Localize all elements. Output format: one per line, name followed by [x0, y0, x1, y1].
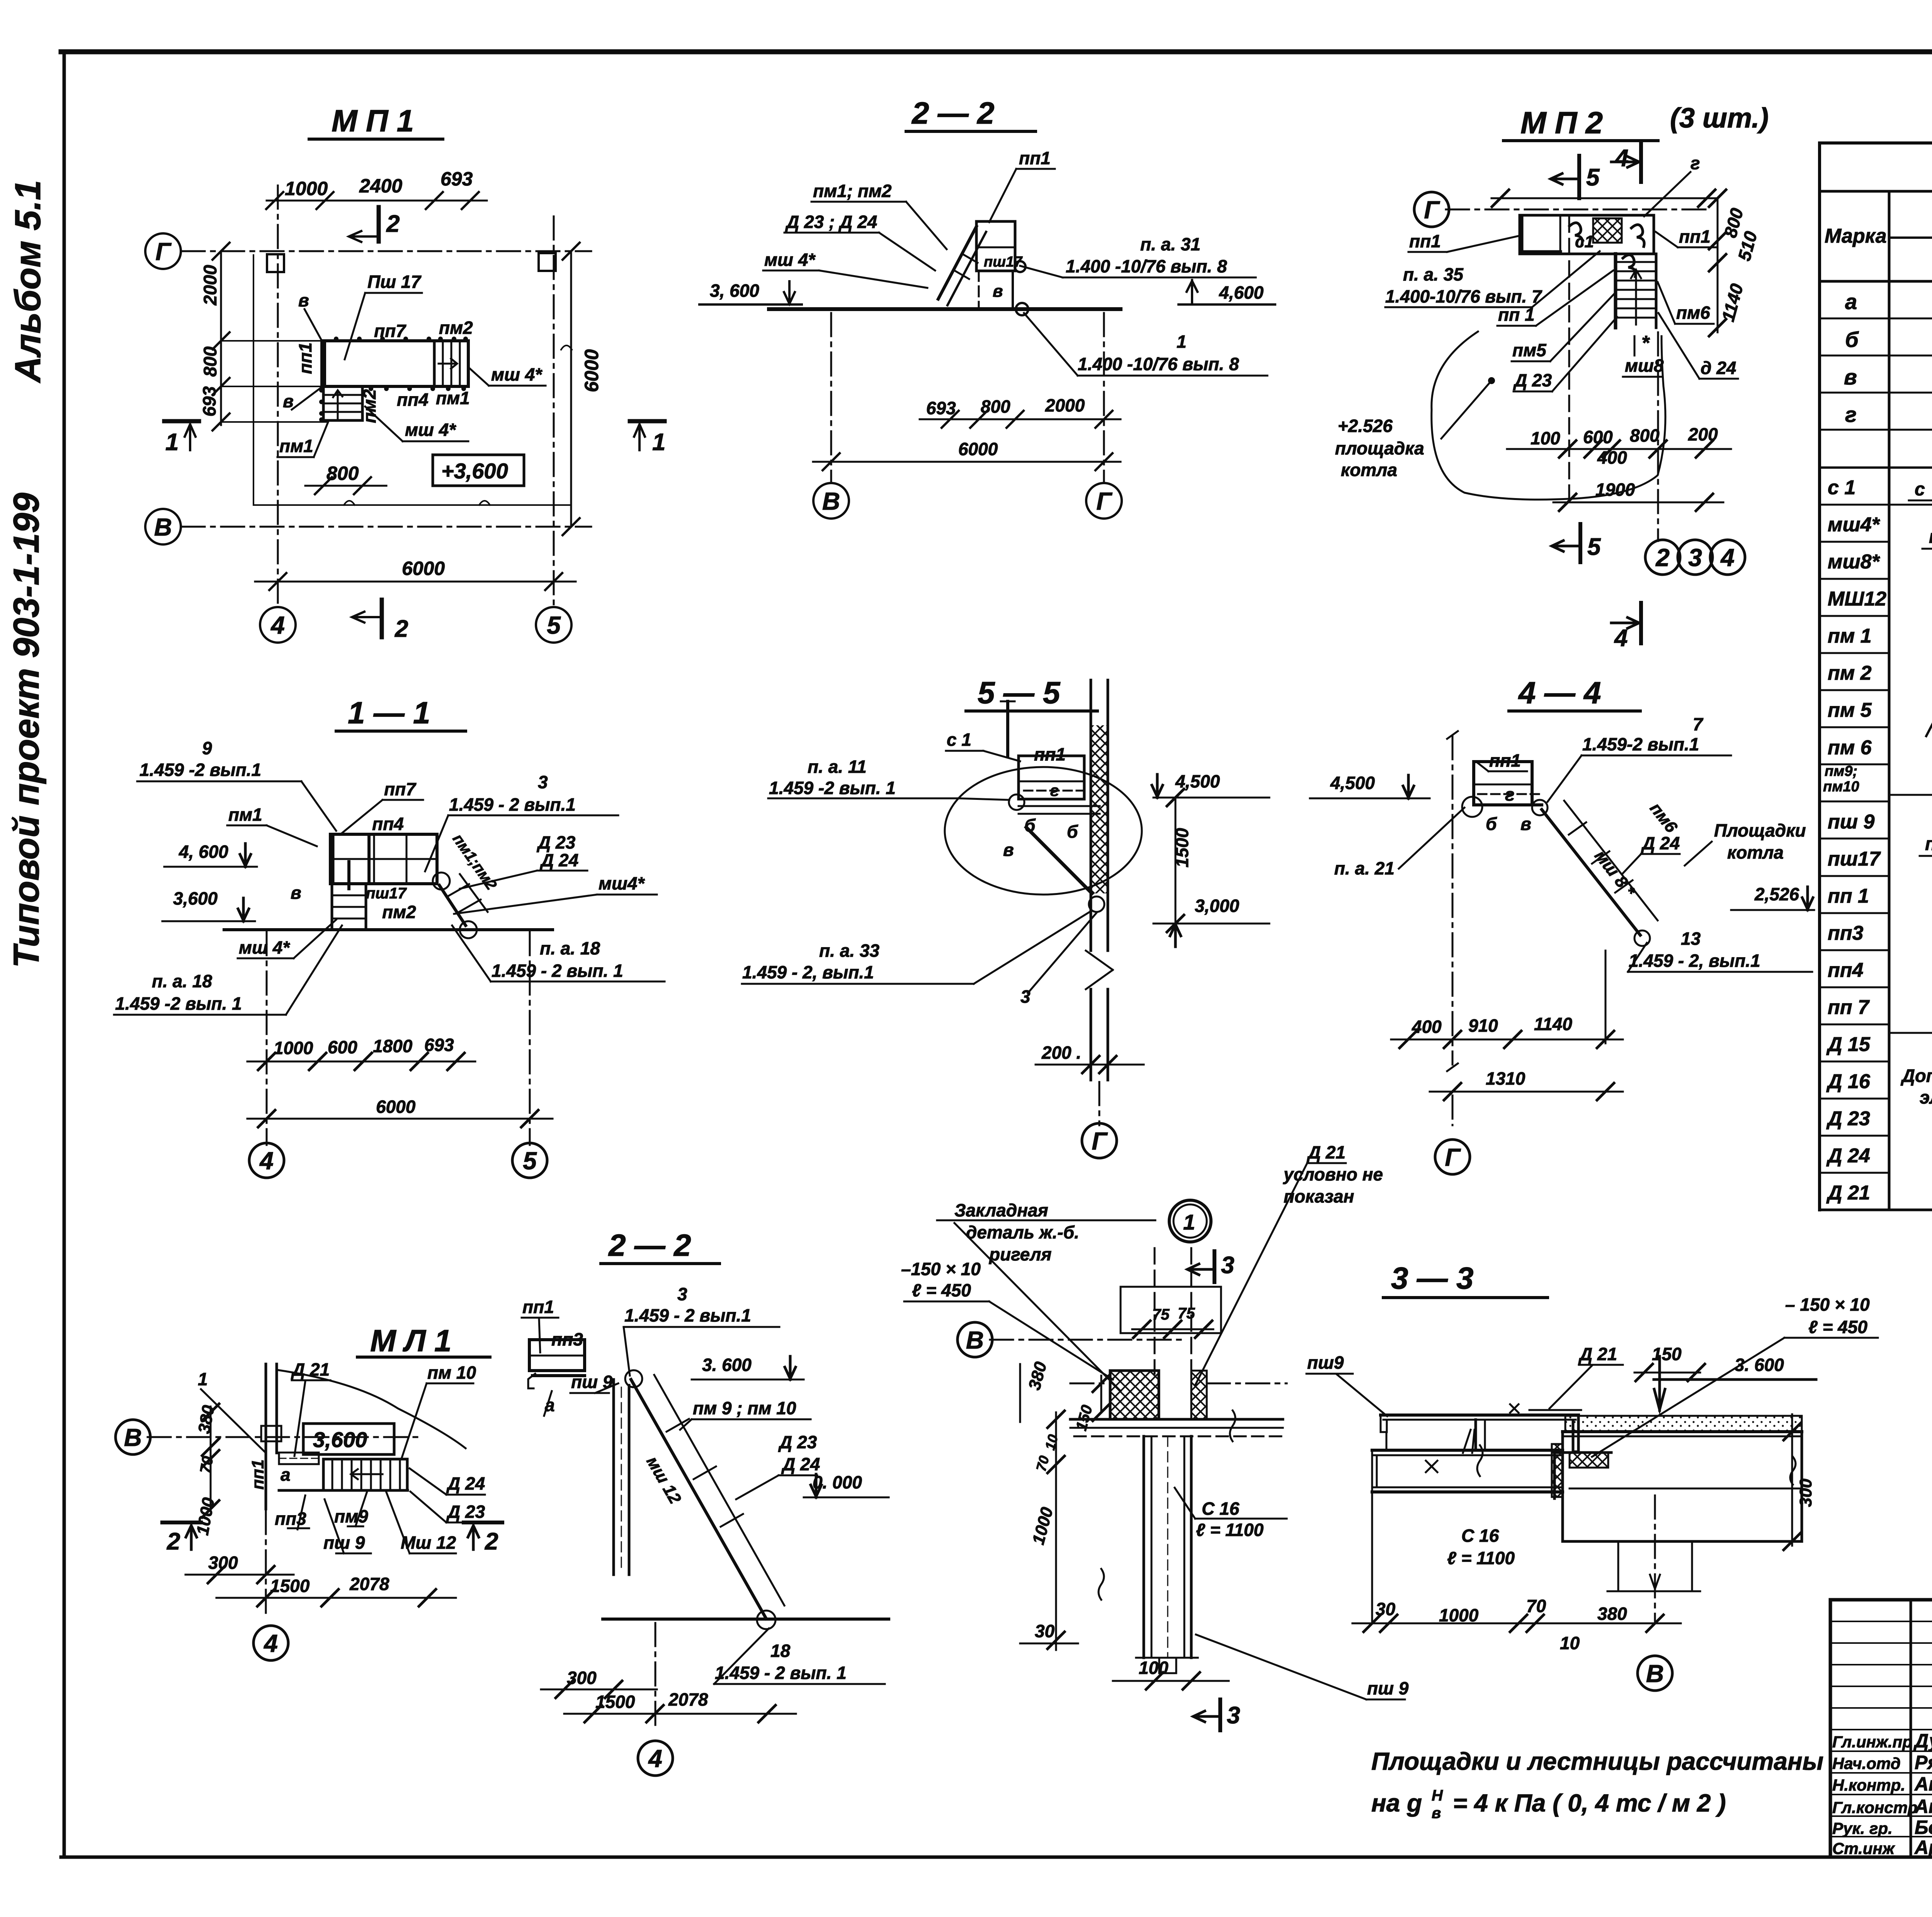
svg-text:600: 600 [328, 1037, 357, 1057]
svg-text:ℓ = 1100: ℓ = 1100 [1196, 1520, 1264, 1540]
svg-text:5: 5 [1587, 534, 1601, 560]
svg-text:пш17: пш17 [1828, 848, 1881, 870]
svg-text:4: 4 [263, 1630, 278, 1657]
svg-text:Д 21: Д 21 [1306, 1142, 1345, 1162]
svg-text:пп1: пп1 [1034, 744, 1066, 764]
svg-text:4,500: 4,500 [1175, 771, 1220, 791]
svg-text:Артамонова: Артамонова [1914, 1837, 1932, 1858]
svg-text:Н: Н [1432, 1787, 1443, 1804]
svg-text:100: 100 [1139, 1658, 1168, 1678]
svg-text:пп 7: пп 7 [1828, 996, 1870, 1019]
svg-text:с 1: с 1 [947, 730, 971, 750]
svg-text:Площадки и лестницы рассчитаны: Площадки и лестницы рассчитаны [1371, 1747, 1823, 1775]
svg-text:1.459 - 2, вып.1: 1.459 - 2, вып.1 [742, 962, 874, 982]
svg-text:пп1: пп1 [1409, 231, 1441, 251]
svg-text:в: в [1844, 365, 1857, 389]
svg-text:1 — 1: 1 — 1 [348, 696, 430, 730]
svg-text:б: б [1067, 822, 1078, 842]
svg-text:Н.контр.: Н.контр. [1832, 1776, 1905, 1794]
svg-text:пп 1: пп 1 [1828, 885, 1869, 907]
svg-text:пм1;пм2: пм1;пм2 [449, 831, 500, 893]
svg-text:пм6: пм6 [1646, 799, 1681, 837]
svg-text:Г: Г [1445, 1143, 1461, 1171]
svg-text:= 4 к Па ( 0, 4 тс / м 2 ): = 4 к Па ( 0, 4 тс / м 2 ) [1453, 1789, 1726, 1817]
svg-text:800: 800 [200, 347, 220, 377]
svg-text:Д 24: Д 24 [539, 850, 578, 870]
svg-text:Пш 17: Пш 17 [367, 272, 422, 292]
svg-text:пп4: пп4 [372, 814, 404, 834]
svg-text:1.459 - 2 вып. 1: 1.459 - 2 вып. 1 [492, 961, 623, 981]
svg-text:693: 693 [199, 386, 219, 417]
svg-text:1140: 1140 [1534, 1014, 1572, 1034]
svg-text:2000: 2000 [200, 265, 220, 306]
svg-text:Д 23: Д 23 [446, 1502, 485, 1522]
svg-text:Бобрук: Бобрук [1915, 1817, 1932, 1838]
svg-text:1.459 -2 вып. 1: 1.459 -2 вып. 1 [769, 778, 896, 798]
svg-text:пм6: пм6 [1676, 303, 1710, 323]
svg-text:пп7: пп7 [374, 321, 406, 341]
svg-text:400: 400 [1412, 1017, 1442, 1037]
figure МП1 plan [145, 104, 665, 643]
svg-text:Закладная: Закладная [954, 1200, 1048, 1220]
svg-text:5: 5 [523, 1147, 537, 1175]
svg-text:г: г [1845, 402, 1857, 427]
svg-text:2078: 2078 [349, 1574, 389, 1594]
svg-text:пм1: пм1 [279, 436, 313, 456]
svg-text:1000: 1000 [274, 1038, 313, 1058]
svg-text:б: б [1845, 327, 1859, 352]
svg-text:пм2: пм2 [382, 902, 416, 922]
svg-text:п. а. 11: п. а. 11 [808, 757, 867, 777]
svg-text:1000: 1000 [193, 1496, 218, 1536]
svg-text:Рябуха: Рябуха [1915, 1752, 1932, 1773]
svg-text:пм5: пм5 [1512, 340, 1547, 360]
sketch c1 [1909, 473, 1932, 974]
svg-text:пп1: пп1 [1679, 226, 1711, 247]
svg-text:(3 шт.): (3 шт.) [1670, 103, 1769, 134]
svg-text:Площадки: Площадки [1714, 820, 1806, 840]
svg-text:мш4*: мш4* [1828, 514, 1881, 536]
figure 1-1 section [114, 696, 665, 1178]
svg-text:пш9: пш9 [1307, 1352, 1344, 1373]
svg-text:п. а. 18: п. а. 18 [152, 971, 212, 991]
svg-text:пм9: пм9 [334, 1506, 368, 1526]
svg-text:1.400 -10/76 вып. 8: 1.400 -10/76 вып. 8 [1066, 256, 1227, 276]
svg-text:1.459 -2 вып. 1: 1.459 -2 вып. 1 [115, 993, 242, 1014]
svg-text:Д 21: Д 21 [1826, 1182, 1870, 1204]
svg-text:5 — 5: 5 — 5 [978, 675, 1061, 710]
svg-text:2,526: 2,526 [1754, 884, 1799, 904]
svg-text:пш17: пш17 [984, 254, 1023, 270]
svg-text:3,600: 3,600 [173, 888, 218, 908]
svg-text:мш8*: мш8* [1828, 551, 1881, 573]
svg-text:Типовой проект 903-1-199: Типовой проект 903-1-199 [6, 493, 46, 968]
svg-text:п. а. 31: п. а. 31 [1140, 234, 1201, 254]
svg-text:пш 9: пш 9 [323, 1533, 365, 1553]
svg-text:пш 9: пш 9 [1367, 1678, 1409, 1698]
svg-text:6000: 6000 [581, 349, 602, 392]
svg-text:4: 4 [270, 611, 285, 639]
svg-text:п. а. 35: п. а. 35 [1403, 264, 1464, 284]
svg-text:Д 24: Д 24 [781, 1454, 820, 1474]
svg-text:300: 300 [567, 1668, 597, 1688]
svg-text:МШ12: МШ12 [1828, 588, 1886, 610]
svg-text:Д 23: Д 23 [1826, 1107, 1870, 1130]
svg-text:с: с [1915, 479, 1925, 500]
svg-text:в: в [993, 282, 1003, 301]
svg-text:1.459-2 вып.1: 1.459-2 вып.1 [1582, 734, 1699, 754]
svg-text:10: 10 [1042, 1433, 1061, 1452]
svg-text:пм10: пм10 [1823, 779, 1859, 795]
svg-text:г: г [1050, 781, 1059, 799]
svg-text:на g: на g [1371, 1789, 1422, 1817]
svg-text:пп: пп [1925, 834, 1932, 854]
svg-text:п. а. 33: п. а. 33 [819, 941, 879, 961]
svg-text:1140: 1140 [1718, 281, 1747, 323]
svg-text:В: В [966, 1326, 984, 1354]
svg-text:пп1: пп1 [1019, 148, 1051, 168]
svg-text:5: 5 [1586, 164, 1600, 191]
svg-text:6000: 6000 [402, 558, 445, 579]
svg-text:3: 3 [1688, 544, 1702, 572]
svg-text:Г: Г [155, 238, 172, 265]
svg-text:С 16: С 16 [1202, 1499, 1240, 1519]
figure 2-2 bottom section [522, 1228, 889, 1776]
frame border top [61, 49, 1932, 54]
svg-text:пм 5: пм 5 [1828, 699, 1872, 721]
svg-text:1900: 1900 [1595, 480, 1635, 500]
svg-text:Д 23 ; Д 24: Д 23 ; Д 24 [785, 212, 877, 232]
svg-text:1.459 -2 вып.1: 1.459 -2 вып.1 [139, 760, 261, 780]
svg-text:Ст.инж: Ст.инж [1832, 1839, 1895, 1857]
svg-text:380: 380 [1025, 1359, 1050, 1392]
svg-text:4: 4 [1614, 145, 1628, 172]
svg-text:Д 23: Д 23 [1513, 370, 1552, 390]
svg-text:в: в [283, 391, 294, 411]
svg-text:693: 693 [926, 398, 956, 418]
svg-text:пп7: пп7 [384, 779, 417, 799]
frame border bottom [61, 1856, 1932, 1859]
svg-text:б: б [1486, 814, 1497, 834]
svg-text:200 .: 200 . [1041, 1043, 1081, 1063]
svg-text:10: 10 [1560, 1633, 1580, 1653]
svg-text:а: а [281, 1465, 291, 1485]
svg-text:д 24: д 24 [1701, 358, 1736, 378]
svg-text:Д 16: Д 16 [1826, 1070, 1871, 1093]
svg-text:2 — 2: 2 — 2 [911, 96, 994, 130]
svg-text:6000: 6000 [376, 1097, 416, 1117]
svg-text:Д 15: Д 15 [1826, 1033, 1871, 1056]
svg-text:Андриевская: Андриевская [1914, 1773, 1932, 1795]
svg-text:а: а [1845, 289, 1857, 314]
svg-text:–150 × 10: –150 × 10 [901, 1259, 981, 1279]
svg-text:18: 18 [770, 1641, 791, 1661]
svg-text:Марка: Марка [1825, 225, 1887, 247]
svg-text:в: в [291, 883, 301, 903]
svg-text:Д 23: Д 23 [778, 1432, 817, 1452]
svg-text:13: 13 [1681, 929, 1701, 949]
svg-text:Гл.инж.пр: Гл.инж.пр [1832, 1733, 1912, 1751]
svg-text:1000: 1000 [285, 178, 328, 199]
figure 5-5 section [742, 675, 1269, 1158]
svg-text:Д 23: Д 23 [536, 832, 576, 852]
svg-text:800: 800 [327, 463, 359, 484]
svg-text:2000: 2000 [1045, 395, 1085, 415]
svg-text:800: 800 [1630, 425, 1660, 446]
svg-text:деталь ж.-б.: деталь ж.-б. [966, 1222, 1079, 1242]
svg-text:9: 9 [202, 738, 212, 758]
svg-text:пп1: пп1 [295, 342, 315, 374]
svg-text:2078: 2078 [668, 1689, 708, 1709]
svg-text:1500: 1500 [595, 1692, 635, 1712]
svg-text:1: 1 [652, 429, 665, 456]
svg-text:М П 1: М П 1 [332, 104, 414, 138]
svg-text:4, 600: 4, 600 [179, 842, 228, 862]
figure 3-3 section [1306, 1261, 1878, 1691]
svg-text:100: 100 [1531, 428, 1560, 448]
svg-text:в: в [298, 290, 309, 310]
svg-text:б: б [1024, 815, 1036, 835]
svg-text:4 — 4: 4 — 4 [1518, 675, 1601, 710]
svg-text:30: 30 [1035, 1621, 1055, 1641]
svg-text:3: 3 [677, 1284, 687, 1304]
svg-text:пм2: пм2 [439, 318, 473, 338]
svg-text:пм: пм [1929, 527, 1932, 547]
svg-text:4,600: 4,600 [1219, 282, 1264, 303]
svg-text:М Л 1: М Л 1 [370, 1323, 452, 1358]
svg-text:Д 24: Д 24 [446, 1473, 485, 1493]
svg-text:Нач.отд: Нач.отд [1832, 1754, 1901, 1772]
svg-text:1.459 - 2 вып. 1: 1.459 - 2 вып. 1 [715, 1663, 847, 1683]
svg-text:7: 7 [1693, 714, 1704, 734]
svg-text:мш 4*: мш 4* [764, 250, 816, 270]
svg-text:910: 910 [1468, 1015, 1498, 1036]
table Ведомость элементов [1820, 143, 1932, 1210]
svg-text:Альбом 5.1: Альбом 5.1 [7, 180, 48, 383]
svg-text:3,600: 3,600 [313, 1427, 367, 1452]
svg-text:4: 4 [648, 1745, 662, 1772]
svg-text:3: 3 [538, 772, 548, 792]
figure Узел 1 detail [901, 1142, 1409, 1730]
svg-text:2: 2 [395, 616, 408, 642]
svg-text:1.459 - 2 вып.1: 1.459 - 2 вып.1 [449, 794, 576, 815]
svg-text:1: 1 [1177, 332, 1187, 352]
svg-text:площадка: площадка [1335, 438, 1424, 458]
svg-text:2: 2 [485, 1528, 498, 1555]
svg-text:котла: котла [1341, 460, 1397, 480]
svg-text:+3,600: +3,600 [441, 459, 508, 483]
svg-text:Г: Г [1424, 196, 1440, 224]
svg-text:пм9;: пм9; [1825, 763, 1857, 779]
svg-text:70: 70 [197, 1455, 217, 1475]
svg-text:п. а. 18: п. а. 18 [540, 938, 600, 958]
svg-text:пш 9: пш 9 [1828, 811, 1874, 833]
svg-text:Г: Г [1096, 487, 1112, 515]
svg-text:3: 3 [1227, 1702, 1240, 1729]
svg-text:3: 3 [1221, 1252, 1234, 1279]
title block bottom right [1830, 1600, 1932, 1857]
svg-text:4: 4 [259, 1147, 274, 1175]
svg-text:Рук. гр.: Рук. гр. [1832, 1819, 1893, 1837]
svg-text:пм1: пм1 [228, 805, 262, 825]
svg-text:5: 5 [547, 611, 561, 639]
svg-text:75: 75 [1178, 1305, 1195, 1322]
svg-text:пм1; пм2: пм1; пм2 [813, 181, 892, 201]
svg-text:мш4*: мш4* [599, 873, 645, 893]
svg-text:С 16: С 16 [1461, 1526, 1499, 1546]
svg-text:693: 693 [424, 1035, 454, 1055]
svg-text:пп1: пп1 [522, 1297, 554, 1317]
svg-text:150: 150 [1652, 1344, 1682, 1364]
figure МП2 plan [1335, 103, 1769, 651]
svg-text:в: в [1432, 1805, 1441, 1822]
svg-text:В: В [1646, 1660, 1664, 1687]
svg-text:Д 24: Д 24 [1826, 1145, 1870, 1167]
svg-text:4: 4 [1720, 544, 1735, 572]
svg-text:2400: 2400 [359, 175, 402, 197]
figure 2-2 section top [699, 96, 1275, 519]
svg-text:пм 10: пм 10 [427, 1362, 476, 1383]
svg-text:3, 600: 3, 600 [710, 281, 759, 301]
svg-text:пм 9 ; пм 10: пм 9 ; пм 10 [693, 1398, 796, 1418]
svg-text:Думан: Думан [1913, 1730, 1932, 1752]
svg-text:мш 4*: мш 4* [491, 364, 543, 384]
svg-text:В: В [124, 1424, 142, 1451]
svg-text:2: 2 [1655, 544, 1670, 572]
svg-text:пп4: пп4 [397, 390, 429, 410]
svg-text:котла: котла [1727, 842, 1784, 862]
svg-text:2: 2 [167, 1528, 180, 1555]
svg-text:1.459 - 2, вып.1: 1.459 - 2, вып.1 [1629, 951, 1760, 971]
svg-text:2: 2 [386, 211, 400, 237]
svg-text:1: 1 [1183, 1210, 1195, 1234]
svg-text:+2.526: +2.526 [1338, 416, 1393, 436]
svg-text:– 150 × 10: – 150 × 10 [1785, 1294, 1870, 1315]
svg-text:70: 70 [1526, 1596, 1546, 1616]
svg-text:3. 600: 3. 600 [702, 1355, 752, 1375]
svg-text:ℓ = 1100: ℓ = 1100 [1447, 1548, 1515, 1568]
svg-text:2 — 2: 2 — 2 [608, 1228, 691, 1262]
svg-text:ригеля: ригеля [988, 1244, 1051, 1264]
svg-text:В: В [822, 487, 840, 515]
svg-text:1000: 1000 [1439, 1605, 1479, 1625]
svg-text:элементы: элементы [1920, 1087, 1932, 1107]
svg-text:3,000: 3,000 [1195, 896, 1240, 916]
svg-text:мш 4*: мш 4* [405, 420, 456, 440]
svg-text:М П 2: М П 2 [1520, 105, 1603, 140]
svg-text:с 1: с 1 [1828, 476, 1855, 499]
svg-text:380: 380 [1597, 1604, 1627, 1624]
figure МЛ1 [116, 1323, 502, 1660]
svg-text:1310: 1310 [1486, 1068, 1526, 1089]
svg-text:1500: 1500 [270, 1576, 310, 1596]
svg-text:1800: 1800 [373, 1036, 413, 1056]
svg-text:1: 1 [165, 429, 179, 456]
svg-text:Д 21: Д 21 [1578, 1344, 1617, 1364]
svg-text:В: В [154, 513, 172, 541]
svg-text:г: г [1690, 153, 1700, 173]
svg-text:ℓ = 450: ℓ = 450 [912, 1280, 971, 1300]
svg-text:Дополнительные: Дополнительные [1900, 1065, 1932, 1086]
svg-text:693: 693 [440, 168, 473, 190]
svg-text:в: в [1003, 840, 1014, 860]
svg-text:мш 4*: мш 4* [239, 937, 290, 958]
svg-text:в: в [1520, 814, 1531, 834]
svg-text:1.459 - 2 вып.1: 1.459 - 2 вып.1 [624, 1305, 751, 1325]
svg-text:1.400 -10/76 вып. 8: 1.400 -10/76 вып. 8 [1078, 354, 1239, 374]
svg-text:ℓ = 450: ℓ = 450 [1808, 1317, 1867, 1337]
svg-text:п. а. 21: п. а. 21 [1334, 858, 1395, 878]
svg-text:пм1: пм1 [436, 388, 470, 408]
svg-text:пш17: пш17 [366, 885, 407, 902]
svg-text:Андриевская: Андриевская [1914, 1796, 1932, 1817]
svg-text:пм 1: пм 1 [1828, 625, 1872, 647]
svg-text:3: 3 [1020, 987, 1031, 1007]
svg-text:Г: Г [1092, 1127, 1108, 1155]
svg-text:пп3: пп3 [1828, 922, 1864, 944]
svg-text:4: 4 [1614, 625, 1628, 651]
svg-text:6000: 6000 [958, 439, 998, 459]
svg-text:пм 6: пм 6 [1828, 737, 1872, 759]
svg-text:пм 2: пм 2 [1828, 662, 1872, 684]
svg-text:пп4: пп4 [1828, 959, 1864, 981]
frame border left [63, 52, 66, 1857]
svg-text:*: * [1641, 332, 1650, 354]
svg-text:1.400-10/76 вып. 7: 1.400-10/76 вып. 7 [1385, 286, 1543, 306]
svg-text:300: 300 [1796, 1478, 1815, 1507]
svg-text:Д 24: Д 24 [1641, 833, 1680, 853]
svg-text:4,500: 4,500 [1330, 773, 1375, 793]
svg-text:1000: 1000 [1029, 1505, 1057, 1547]
svg-text:3 — 3: 3 — 3 [1391, 1261, 1473, 1295]
svg-text:1: 1 [198, 1369, 208, 1389]
svg-text:Гл.констр: Гл.констр [1832, 1798, 1918, 1817]
figure 4-4 section [1310, 675, 1814, 1174]
